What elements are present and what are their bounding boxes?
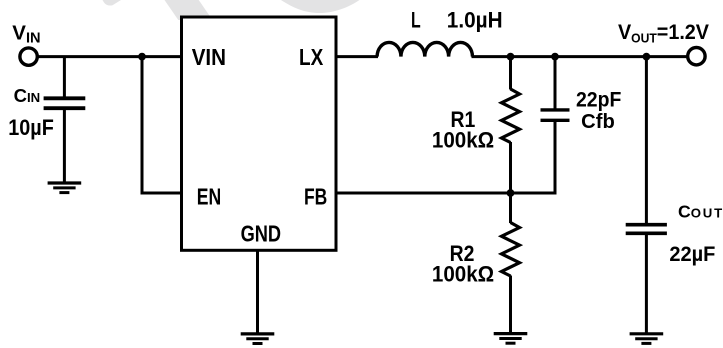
- capacitor COUT top lead: [645, 57, 648, 224]
- wire FB: [336, 192, 557, 195]
- wire VIN to IC: [37, 55, 183, 58]
- wire R2 to ground: [509, 276, 512, 335]
- wire inductor to VOUT: [472, 55, 688, 58]
- svg-text:10µF: 10µF: [8, 115, 54, 140]
- ground R2: [494, 334, 528, 344]
- capacitor COUT: [626, 225, 667, 234]
- svg-text:100kΩ: 100kΩ: [432, 128, 494, 153]
- wire CIN drop: [63, 57, 66, 97]
- node junction dot R1 top: [507, 53, 515, 61]
- capacitor Cfb bottom lead: [554, 122, 557, 195]
- ground IC: [241, 334, 275, 344]
- wire R1 bottom lead: [509, 142, 512, 194]
- wire R1 top lead: [509, 57, 512, 90]
- wire EN drop: [141, 57, 144, 195]
- inductor L: [377, 42, 472, 56]
- capacitor Cfb: [541, 110, 570, 120]
- node junction dot Cfb top: [551, 53, 559, 61]
- wire GND pin: [256, 250, 259, 335]
- svg-text:L: L: [411, 8, 421, 33]
- ground COUT: [630, 334, 664, 344]
- capacitor CIN: [44, 98, 86, 108]
- svg-text:22µF: 22µF: [669, 243, 715, 266]
- resistor R2: [502, 223, 520, 277]
- node junction dot FB/R1/R2: [507, 189, 515, 197]
- wire CIN to ground: [63, 110, 66, 184]
- resistor R1: [502, 89, 520, 143]
- svg-text:FB: FB: [304, 184, 327, 210]
- capacitor Cfb top lead: [554, 57, 557, 109]
- svg-text:1.0µH: 1.0µH: [447, 8, 503, 33]
- wire EN horizontal: [141, 192, 184, 195]
- wire LX to inductor: [336, 55, 378, 58]
- ground CIN: [48, 183, 82, 193]
- svg-text:VIN: VIN: [192, 44, 226, 70]
- svg-text:EN: EN: [197, 184, 221, 210]
- terminal VOUT: [688, 48, 705, 65]
- svg-text:GND: GND: [241, 221, 282, 247]
- svg-text:22pF: 22pF: [576, 88, 621, 112]
- svg-text:LX: LX: [299, 44, 324, 70]
- capacitor COUT to ground: [645, 234, 648, 334]
- svg-text:100kΩ: 100kΩ: [432, 262, 494, 287]
- svg-text:Cfb: Cfb: [581, 111, 615, 133]
- terminal VIN: [20, 48, 37, 65]
- node junction dot VIN rail: [138, 53, 146, 61]
- regulator IC U1 body: [182, 17, 337, 250]
- node junction dot COUT tap: [643, 53, 651, 61]
- wire R2 top lead: [509, 193, 512, 223]
